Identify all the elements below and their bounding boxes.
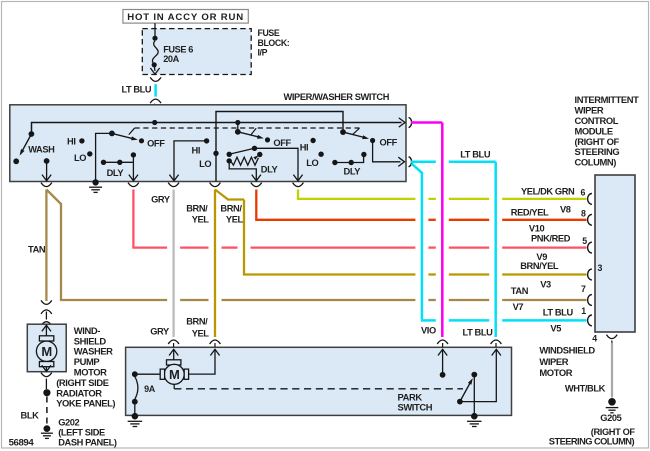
section3 delay resistor: [227, 152, 263, 165]
svg-text:TAN: TAN: [511, 286, 529, 296]
section3 OFF contact: [265, 137, 292, 148]
label 56894: [9, 437, 35, 448]
module pin 4 (bottom): [592, 334, 617, 344]
wire RED/YEL from switch to module pin8: [255, 190, 586, 220]
svg-text:HI: HI: [192, 145, 201, 155]
mechanical link dashed line: [135, 127, 360, 129]
wire TAN from switch (branch to pump): [45, 190, 47, 302]
svg-text:FUSE 6: FUSE 6: [163, 44, 193, 54]
section2 HI contact: [67, 137, 85, 147]
svg-text:WIND-: WIND-: [74, 325, 100, 336]
svg-text:OFF: OFF: [380, 137, 398, 147]
svg-text:STEERING: STEERING: [575, 146, 620, 157]
svg-text:7: 7: [581, 284, 586, 294]
section2 LO contact: [74, 151, 93, 163]
svg-text:YEL: YEL: [192, 215, 210, 225]
label WHT/BLK: [565, 383, 606, 393]
wire BRN/YEL from switch (branch to park switch): [214, 190, 216, 338]
svg-text:WINDSHIELD: WINDSHIELD: [539, 345, 595, 356]
svg-text:MODULE: MODULE: [575, 125, 613, 136]
switch case ground symbol: [89, 187, 102, 192]
wire into wiper/washer switch with up arrow: [150, 104, 159, 122]
label G205: [600, 413, 621, 423]
junction node LT BLU on bus: [152, 120, 157, 125]
label PARK SWITCH: [398, 391, 433, 412]
label GRY (lower): [150, 327, 170, 337]
connector cup RED/YEL exit: [251, 183, 262, 187]
svg-text:WIPER: WIPER: [575, 105, 604, 116]
svg-text:RED/YEL: RED/YEL: [511, 208, 549, 218]
section3 LO contact on bus2 lead: [199, 151, 219, 170]
svg-text:V8: V8: [560, 204, 571, 214]
bus wire from LT BLU feed (top bus): [32, 118, 406, 134]
svg-text:20A: 20A: [163, 54, 179, 64]
fuse block dashed box (I/P): [142, 29, 251, 75]
park switch ground node: [467, 413, 482, 427]
wire LT BLU vertical to park switch: [494, 162, 497, 337]
label V7: [513, 302, 524, 312]
module pin 8: [581, 208, 592, 225]
label V10: [529, 224, 545, 234]
ground G205: [606, 398, 619, 413]
connector pair below fuse block: [150, 77, 161, 103]
section3 delay sub-arm: [227, 146, 258, 157]
section3 YEL/DK GRN takeoff from sub-arm: [255, 148, 303, 181]
section2 ground lead: [96, 133, 112, 181]
module pin 6: [581, 188, 592, 205]
park switch arm: [460, 378, 473, 402]
svg-text:YEL: YEL: [192, 328, 210, 338]
label LT BLU (module): [543, 308, 574, 318]
svg-text:MOTOR: MOTOR: [539, 367, 572, 378]
washer pump entry arrow: [42, 325, 51, 336]
label INTERMITTENT WIPER CONTROL MODULE: [575, 94, 640, 167]
wiper motor M symbol (park): [160, 360, 188, 385]
power feed box HOT IN ACCY OR RUN: [123, 10, 248, 24]
svg-text:3: 3: [598, 263, 603, 273]
svg-text:V10: V10: [529, 224, 545, 234]
connector cup VIO at park switch: [437, 340, 448, 344]
wire LT BLU branch to module pin1 (diagonal+vertical): [412, 164, 422, 320]
wire BLK dashed to G202: [46, 397, 48, 426]
svg-text:FUSE: FUSE: [258, 28, 280, 38]
windshield washer pump motor box: [27, 324, 66, 372]
svg-text:INTERMITTENT: INTERMITTENT: [575, 94, 640, 105]
section4 DLY contacts: [332, 152, 366, 165]
svg-text:1: 1: [581, 306, 586, 316]
svg-text:GRY: GRY: [150, 327, 170, 337]
svg-text:DLY: DLY: [261, 164, 279, 174]
section2 DLY contacts: [101, 152, 138, 181]
park switch VIO contact: [440, 372, 446, 378]
svg-text:56894: 56894: [9, 437, 35, 448]
svg-text:SHIELD: SHIELD: [74, 335, 107, 346]
section3 DLY lead to RED/YEL: [229, 161, 261, 181]
label WIPER/WASHER SWITCH: [284, 92, 390, 102]
svg-text:LT BLU: LT BLU: [543, 308, 574, 318]
wire TAN branch to module pin7: [46, 190, 61, 301]
svg-text:YEL: YEL: [226, 215, 244, 225]
label OFF section4: [380, 137, 398, 147]
label FUSE BLOCK: I/P: [258, 28, 290, 57]
section4 wiper arm: [340, 129, 369, 139]
park switch ground contact: [471, 372, 477, 415]
park switch BRN/YEL entry arrow: [189, 343, 220, 374]
connector cup BRN/YEL at park switch: [210, 340, 221, 344]
label BRN/YEL (upper left): [186, 204, 209, 225]
connector at washer pump: [41, 322, 52, 326]
svg-text:DLY: DLY: [107, 168, 125, 178]
svg-text:(RIGHT OF: (RIGHT OF: [575, 136, 620, 147]
svg-text:PNK/RED: PNK/RED: [531, 234, 571, 244]
WASH switch arm: [20, 131, 35, 156]
label V8: [560, 204, 571, 214]
label V3: [540, 279, 551, 289]
svg-text:V5: V5: [550, 324, 561, 334]
svg-text:LT BLU: LT BLU: [460, 150, 491, 160]
svg-text:RADIATOR: RADIATOR: [56, 387, 102, 398]
connector below washer pump: [41, 373, 52, 389]
label DLY section2: [107, 168, 125, 178]
label G202: [58, 418, 79, 428]
section3 HI contact and lead to GRY: [169, 138, 209, 181]
park switch box: [126, 347, 512, 415]
svg-text:BRN/: BRN/: [220, 204, 242, 214]
label PNK/RED: [531, 234, 571, 244]
svg-text:LT BLU: LT BLU: [463, 328, 494, 338]
label V9: [536, 252, 547, 262]
svg-text:COLUMN): COLUMN): [575, 157, 617, 168]
park switch VIO entry arrow: [438, 343, 447, 372]
label 9A: [144, 384, 156, 394]
module pin 7: [581, 284, 592, 306]
svg-text:PUMP: PUMP: [74, 356, 100, 367]
wiper/washer switch box: [10, 105, 406, 182]
svg-text:WHT/BLK: WHT/BLK: [565, 383, 606, 393]
svg-text:SWITCH: SWITCH: [398, 402, 433, 413]
svg-text:OFF: OFF: [273, 138, 291, 148]
svg-text:BLOCK:: BLOCK:: [258, 38, 290, 48]
section4 LO contact: [306, 152, 324, 169]
label WINDSHIELD WASHER PUMP MOTOR: [74, 325, 113, 378]
svg-text:GRY: GRY: [151, 195, 171, 205]
svg-text:DLY: DLY: [344, 167, 362, 177]
svg-text:M: M: [169, 367, 179, 382]
svg-text:G205: G205: [600, 413, 621, 423]
park switch mechanical dashed link: [174, 384, 463, 389]
park switch GRY entry arrow: [169, 343, 178, 360]
connector cup TAN exit: [41, 183, 52, 187]
svg-text:WASHER: WASHER: [74, 346, 113, 357]
svg-text:V3: V3: [540, 279, 551, 289]
mech link tick section3: [251, 128, 256, 135]
mech link tick section2: [129, 128, 135, 134]
svg-text:M: M: [41, 344, 51, 359]
label WASH: [28, 145, 55, 155]
wire PNK/RED from switch to module pin5: [132, 190, 586, 248]
connector cup YEL/DK GRN exit: [293, 183, 304, 187]
fuse F6 element: [150, 23, 159, 74]
label BRN/YEL (module): [520, 261, 559, 271]
washer pump exit arrow: [42, 365, 51, 371]
label VIO: [421, 325, 436, 335]
label DLY section4: [344, 167, 362, 177]
circuit breaker 9A: [132, 371, 138, 414]
svg-text:YEL/DK GRN: YEL/DK GRN: [521, 187, 575, 197]
svg-text:BRN/YEL: BRN/YEL: [520, 261, 559, 271]
connector bracket VIO exit: [409, 117, 412, 127]
label DLY section3: [261, 164, 279, 174]
svg-text:I/P: I/P: [258, 48, 268, 58]
connector inline on TAN wire: [41, 300, 52, 319]
label RED/YEL: [511, 208, 549, 218]
svg-text:HI: HI: [67, 137, 76, 147]
svg-text:HOT IN ACCY OR RUN: HOT IN ACCY OR RUN: [127, 12, 244, 23]
label TAN (module): [511, 286, 529, 296]
svg-text:OFF: OFF: [147, 139, 165, 149]
module pin 3: [588, 263, 603, 280]
svg-text:BLK: BLK: [21, 411, 40, 421]
label GRY (upper): [151, 195, 171, 205]
svg-text:WIPER: WIPER: [539, 356, 568, 367]
wire BRN/YEL branch to module pin3: [215, 190, 587, 275]
mech link tick section4: [353, 128, 360, 134]
wire LT BLU branch to park switch (horizontal): [411, 161, 496, 164]
wire GRY from switch to park switch: [172, 190, 174, 338]
svg-text:WASH: WASH: [28, 145, 55, 155]
svg-text:V7: V7: [513, 302, 524, 312]
connector cup PNK/RED exit: [128, 183, 139, 187]
label BRN/YEL (lower): [186, 316, 209, 338]
switch case ground node: [92, 179, 98, 185]
connector cup GRY exit: [168, 183, 179, 187]
park switch internal ground node: [128, 413, 142, 427]
svg-text:4: 4: [592, 334, 597, 344]
junction node section3 on bus: [235, 120, 240, 125]
connector cup GRY at park switch: [168, 340, 179, 344]
section3 wiper arm: [235, 129, 264, 139]
svg-text:G202: G202: [58, 418, 79, 428]
wire LT BLU horizontal to module pin 1: [421, 319, 587, 322]
label LT BLU (park): [463, 328, 494, 338]
svg-text:LO: LO: [306, 158, 318, 168]
svg-text:CONTROL: CONTROL: [575, 115, 619, 126]
label WINDSHIELD WIPER MOTOR: [539, 345, 595, 379]
park switch LT BLU entry arrow: [461, 343, 501, 402]
wire VIO from switch to park switch: [411, 123, 442, 338]
connector cup LT BLU at park switch: [491, 340, 502, 344]
svg-text:LO: LO: [199, 159, 211, 169]
WASH output contact and lead to TAN: [42, 158, 51, 181]
wire YEL/DK GRN from switch to module pin6: [297, 190, 587, 199]
svg-text:DASH PANEL): DASH PANEL): [58, 437, 117, 447]
washer pump motor M symbol: [36, 336, 56, 367]
label BLK: [21, 411, 40, 421]
section2 wiper arm: [109, 131, 138, 141]
wire WHT/BLK from module pin4: [611, 343, 613, 398]
label YEL/DK GRN: [521, 187, 575, 197]
label V5: [550, 324, 561, 334]
connector bracket LT BLU exit: [409, 157, 412, 167]
intermittent wiper control module box: [595, 175, 635, 332]
connector cup BRN/YEL exit: [210, 183, 221, 187]
module pin 1: [581, 306, 592, 326]
label FUSE 6 20A: [163, 44, 193, 64]
bus wire 2 to section4 pivot: [216, 112, 343, 182]
wire TAN horizontal to module pin 7: [60, 299, 587, 301]
splice node washer ground: [43, 389, 50, 396]
section2 OFF contact: [139, 138, 165, 148]
svg-text:BRN/: BRN/: [186, 316, 208, 326]
circuit breaker 9A lead: [135, 373, 160, 375]
svg-text:STEERING COLUMN): STEERING COLUMN): [549, 436, 635, 446]
svg-text:(LEFT SIDE: (LEFT SIDE: [58, 427, 105, 437]
svg-text:(RIGHT SIDE: (RIGHT SIDE: [56, 377, 109, 388]
section3 pivot lead: [237, 123, 239, 132]
svg-text:5: 5: [582, 236, 587, 246]
wire LT BLU fuse to switch (cyan segment): [154, 84, 157, 96]
section4 HI contact: [300, 138, 316, 153]
svg-text:YOKE PANEL): YOKE PANEL): [56, 398, 115, 409]
label pump location: [56, 377, 115, 409]
svg-text:HI: HI: [300, 142, 309, 152]
svg-text:VIO: VIO: [421, 325, 436, 335]
ground G202: [41, 425, 53, 438]
label HI section3: [192, 145, 201, 155]
section4 OFF contact and lead to LT BLU output: [370, 138, 405, 167]
svg-text:9A: 9A: [144, 384, 156, 394]
svg-text:6: 6: [581, 188, 586, 198]
label LT BLU (switch exit): [460, 150, 491, 160]
module pin 5: [582, 236, 592, 253]
svg-text:MOTOR: MOTOR: [74, 367, 107, 378]
label G205 location: [549, 427, 636, 446]
WASH fixed contact: [13, 158, 19, 164]
label LT BLU (top): [122, 85, 152, 95]
svg-text:BRN/: BRN/: [186, 204, 208, 214]
label TAN: [28, 244, 46, 254]
svg-text:WIPER/WASHER SWITCH: WIPER/WASHER SWITCH: [284, 92, 390, 102]
svg-text:LO: LO: [74, 153, 86, 163]
label G202 location: [58, 427, 117, 447]
svg-text:LT BLU: LT BLU: [122, 85, 152, 95]
park switch arm pivot: [457, 399, 463, 405]
label BRN/YEL (upper right): [220, 204, 243, 225]
svg-text:TAN: TAN: [28, 244, 46, 254]
svg-text:8: 8: [581, 208, 586, 218]
